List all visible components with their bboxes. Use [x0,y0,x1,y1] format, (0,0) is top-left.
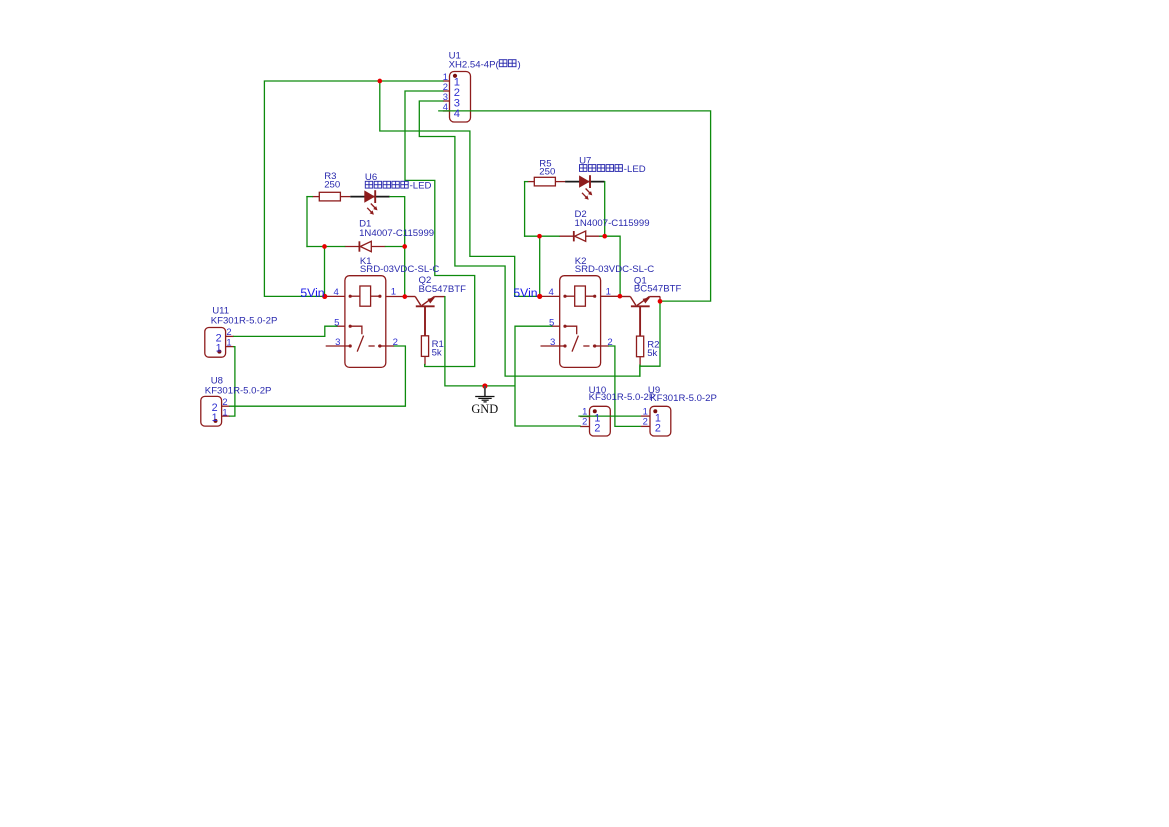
svg-text:250: 250 [324,179,340,190]
svg-text:2: 2 [655,423,661,435]
wire D2 to right 5Vin node [539,236,541,296]
svg-text:1N4007-C115999: 1N4007-C115999 [359,228,434,239]
wire U1.1 branch to right 5Vin [380,81,540,296]
wire Q1 emitter down [640,301,660,376]
node left 5Vin [322,294,327,299]
U8 pin-1 marker [214,419,218,423]
wire right LED loop [524,182,526,237]
svg-text:2: 2 [393,337,398,348]
svg-text:5: 5 [549,318,554,329]
wire left LED loop [306,197,308,247]
wire D2 right to K2.1 [600,236,620,296]
wire K2.5 to U10.2 [515,326,580,426]
svg-text:-LED: -LED [410,181,432,192]
relay K1 coil [360,286,371,306]
node K2.1/Q1 collector [618,294,623,299]
node D1 left [322,244,327,249]
relay K2 coil [575,286,586,306]
relay K2 body [560,276,601,368]
U9 pin-1 marker [653,409,657,413]
svg-text:2: 2 [582,415,587,426]
wire U1.1 to left 5Vin [264,81,443,296]
svg-text:1: 1 [216,342,222,354]
svg-text:5Vin: 5Vin [300,286,324,300]
connector U9 body [650,406,671,436]
svg-text:KF301R-5.0-2P: KF301R-5.0-2P [589,392,656,403]
svg-text:KF301R-5.0-2P: KF301R-5.0-2P [650,393,717,404]
node D2 right [602,234,607,239]
connector U8 body [201,396,222,426]
U1 pin 2 stub [443,90,450,92]
wire U11.2 to K1.5 [234,326,337,336]
U1 pin 3 stub [443,100,450,102]
svg-text:XH2.54-4P(: XH2.54-4P( [449,60,500,71]
wire U1.3 to R2/GND net [419,101,640,376]
wire D1 right [385,246,404,248]
svg-text:1N4007-C115999: 1N4007-C115999 [575,218,650,229]
wire R3 left [307,196,312,198]
wire U11.1 to U8.1 [230,347,235,417]
K1 pin stubs [325,295,345,297]
svg-text:1: 1 [391,287,396,298]
wire U8.2 to K1.2 [230,346,406,406]
svg-text:4: 4 [454,108,460,120]
node D2 left [537,234,542,239]
wire Q2 emitter to GND rail [445,297,515,386]
node U1.1 branch [377,79,382,84]
wire U1.4 to Q1 emitter [439,111,711,301]
U1 pin 4 stub [443,110,450,112]
svg-text:3: 3 [335,337,340,348]
diode D1 [345,246,386,248]
node GND tap [482,383,487,388]
transistor Q2 [405,297,445,307]
relay K1 body [345,276,386,368]
svg-text:1: 1 [606,287,611,298]
svg-text:KF301R-5.0-2P: KF301R-5.0-2P [205,386,272,397]
LED U6 [350,196,389,198]
K2 pin stubs [540,295,560,297]
svg-text:250: 250 [539,167,555,178]
node right 5Vin [537,294,542,299]
relay K1 switch [350,326,362,334]
R3 leads [312,196,319,198]
svg-text:1: 1 [226,337,231,348]
connector U10 body [590,406,611,436]
U1 pin 1 stub [443,80,450,82]
wire U7 down [604,182,606,237]
svg-text:-LED: -LED [624,164,646,175]
svg-text:2: 2 [222,396,227,407]
wire R5 left [525,181,528,183]
resistor R1 [421,336,428,357]
LED U7 [565,181,604,183]
svg-text:4: 4 [334,287,340,298]
node D1 right [402,244,407,249]
svg-text:2: 2 [607,337,612,348]
svg-text:2: 2 [643,415,648,426]
svg-text:5Vin: 5Vin [513,286,537,300]
transistor Q1 [620,297,660,307]
diode D2 [559,235,600,237]
resistor R5 [534,177,555,186]
svg-text:2: 2 [226,326,231,337]
resistor R3 [319,192,340,201]
svg-text:1: 1 [222,406,227,417]
Q1 emitter corner [659,296,661,301]
connector U1 body [450,72,471,123]
connector U11 body [205,328,226,358]
wire U1.2 to R1 [405,91,475,367]
wire U10.1 to U9.1 [579,415,640,417]
node Q1 emitter [658,299,663,304]
U10 pin-1 marker [593,409,597,413]
svg-text:4: 4 [548,287,554,298]
svg-text:KF301R-5.0-2P: KF301R-5.0-2P [211,316,278,327]
svg-text:GND: GND [471,402,498,416]
wire U6 to K1.1 node [390,197,405,297]
label U7 value [580,165,587,172]
U11 pin-1 marker [217,350,221,354]
wire D1 left [307,246,345,248]
svg-text:BC547BTF: BC547BTF [634,284,682,295]
resistor R2 [637,336,644,357]
svg-text:5: 5 [334,318,339,329]
svg-text:5k: 5k [647,348,657,359]
svg-text:5k: 5k [432,347,442,358]
label U6 value [365,181,372,188]
svg-text:SRD-03VDC-SL-C: SRD-03VDC-SL-C [360,264,440,275]
svg-text:BC547BTF: BC547BTF [419,284,467,295]
svg-text:4: 4 [443,101,448,112]
wire D2 left [525,235,560,237]
svg-text:SRD-03VDC-SL-C: SRD-03VDC-SL-C [575,264,655,275]
R5 leads [528,181,535,183]
relay K2 switch [565,326,577,334]
wire K2.2 to U9.2 [609,346,640,426]
wire D1 to 5Vin node [324,247,326,297]
U1 pin-1 marker [453,74,457,78]
svg-text:2: 2 [594,423,600,435]
svg-text:): ) [518,60,521,71]
svg-text:1: 1 [212,412,218,424]
svg-text:3: 3 [550,337,555,348]
node K1.1/Q2 collector [402,294,407,299]
